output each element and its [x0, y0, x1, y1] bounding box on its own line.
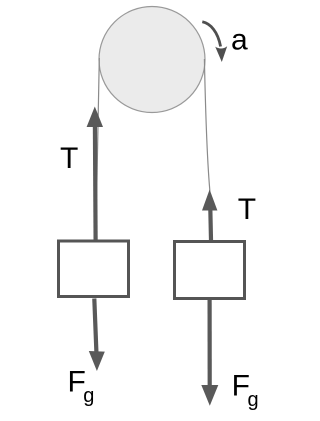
- label Fg right: [232, 369, 259, 411]
- svg-text:a: a: [231, 23, 248, 56]
- mass box right: [175, 242, 245, 299]
- gravity arrow right (down): [201, 300, 218, 406]
- svg-text:T: T: [238, 193, 256, 226]
- gravity arrow left (down): [89, 299, 105, 372]
- pulley: [99, 7, 205, 113]
- label Fg left: [67, 365, 94, 407]
- curved acceleration arrow: [202, 22, 227, 62]
- svg-text:g: g: [83, 385, 94, 407]
- wire left string: [96, 58, 100, 240]
- tension arrow left (up): [87, 107, 103, 241]
- svg-text:g: g: [247, 389, 258, 411]
- svg-text:T: T: [60, 142, 78, 175]
- tension arrow right (up): [202, 190, 217, 241]
- mass box left: [59, 241, 129, 297]
- wire right string: [204, 59, 210, 240]
